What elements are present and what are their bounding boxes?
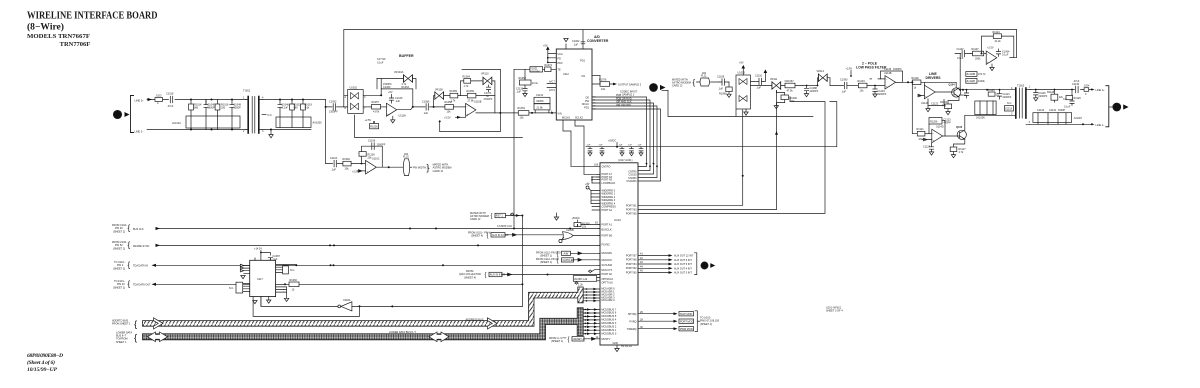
svg-text:1.2k: 1.2k	[578, 284, 583, 287]
wire PORT B1 loop	[638, 110, 743, 205]
Q103 collector to T1003	[965, 115, 1015, 130]
svg-text:LOOPBACK: LOOPBACK	[602, 182, 616, 185]
capacitor C1088	[804, 85, 818, 97]
modem jumper cluster	[470, 212, 489, 221]
svg-text:.1uF: .1uF	[756, 87, 761, 90]
svg-text:R1026: R1026	[370, 125, 378, 128]
svg-text:LINE 2−: LINE 2−	[135, 131, 145, 134]
capacitor C1145	[618, 145, 624, 156]
svg-text:GND: GND	[613, 342, 619, 345]
bias R1052 C1133	[516, 77, 539, 97]
svg-text:C: C	[652, 85, 655, 90]
buffer feedback loop lower C1060/R1063	[381, 89, 413, 107]
svg-text:CARD J2: CARD J2	[433, 170, 444, 173]
svg-text:RESET 2: RESET 2	[574, 338, 585, 341]
svg-text:3.6864MHZ: 3.6864MHZ	[530, 71, 541, 73]
row3 label	[113, 261, 126, 270]
svg-text:JU24: JU24	[1084, 85, 1090, 88]
svg-text:JU111B: JU111B	[966, 80, 975, 83]
row4 TDA DATA OUT wire	[156, 283, 522, 285]
resistor R1054	[518, 107, 529, 119]
svg-text:MCUMIN: MCUMIN	[602, 252, 612, 255]
analog switch U1002	[345, 86, 367, 113]
svg-text:C1135: C1135	[884, 68, 892, 71]
svg-text:BUS CLK: BUS CLK	[133, 228, 144, 231]
codec line down	[668, 91, 813, 117]
PORT A7-A5 LOOPBACK stubs	[584, 174, 600, 183]
svg-text:{: {	[134, 332, 137, 343]
svg-text:VR109: VR109	[435, 89, 443, 92]
svg-text:Q103: Q103	[956, 126, 963, 129]
WIDEFREQ tie circle	[585, 183, 600, 204]
junction node main/down	[325, 106, 327, 108]
svg-text:4.7k: 4.7k	[402, 83, 407, 86]
svg-text:R1107: R1107	[972, 48, 980, 51]
svg-text:R1118: R1118	[912, 77, 920, 80]
svg-text:PORT B0: PORT B0	[626, 271, 637, 274]
U114C feedback	[928, 99, 944, 106]
+2.5V tap	[846, 68, 853, 77]
svg-text:.1uF: .1uF	[331, 169, 336, 172]
svg-text:H1,N1,R1: H1,N1,R1	[621, 345, 633, 348]
wire U110B out	[476, 112, 556, 114]
svg-text:PORT B6: PORT B6	[626, 259, 637, 262]
svg-text:PD1: PD1	[580, 60, 585, 63]
svg-text:5600P: 5600P	[208, 107, 216, 110]
svg-text:SAMPLE 2: SAMPLE 2	[622, 94, 635, 97]
svg-text:(SHEET 2): (SHEET 2)	[113, 286, 125, 289]
svg-text:COMPRESS: COMPRESS	[602, 205, 617, 208]
svg-text:400: 400	[404, 153, 409, 156]
svg-text:200k: 200k	[975, 58, 981, 61]
svg-text:PD: PD	[558, 58, 562, 61]
svg-text:C1124: C1124	[923, 146, 931, 149]
svg-text:CNTRO: CNTRO	[602, 166, 611, 169]
svg-text:{: {	[128, 260, 131, 269]
off-sheet label modem J2	[672, 79, 691, 88]
box PWM MOD	[679, 327, 694, 331]
svg-text:400: 400	[702, 72, 707, 75]
divider JU111B	[959, 70, 985, 91]
svg-text:JU1006: JU1006	[976, 117, 985, 120]
svg-text:T1003: T1003	[1017, 85, 1025, 88]
junction dots secondary	[270, 99, 304, 131]
svg-text:MCSTV: MCSTV	[602, 338, 611, 341]
switch out to buffer fb node	[363, 79, 381, 96]
wire U1002 out	[363, 106, 371, 108]
svg-text:VR112: VR112	[817, 70, 825, 73]
svg-text:MCUDBUS 1: MCUDBUS 1	[602, 329, 617, 332]
wire to U114C	[921, 82, 956, 88]
aux in 12 row	[468, 231, 491, 237]
svg-text:R1133: R1133	[858, 80, 866, 83]
capacitor C1146	[628, 145, 634, 156]
svg-text:.1uF: .1uF	[516, 91, 521, 94]
svg-text:27.8k: 27.8k	[468, 100, 475, 103]
resistor R1065	[467, 90, 476, 103]
svg-text:TRN7706F: TRN7706F	[60, 41, 91, 48]
CNTRO top left pin	[571, 165, 600, 167]
address bus left arrow marker	[154, 318, 164, 329]
transformer T1002	[243, 90, 264, 134]
svg-text:1000PF: 1000PF	[377, 144, 386, 147]
svg-text:U117: U117	[257, 278, 263, 281]
wire PDB OR RXD	[592, 100, 650, 171]
svg-text:.1uF: .1uF	[718, 88, 723, 91]
svg-text:DRIVERS: DRIVERS	[926, 76, 942, 80]
row1 BUS CLK wire	[156, 228, 600, 230]
capacitor C1134	[873, 85, 887, 98]
svg-text:(SHEET 2): (SHEET 2)	[113, 267, 125, 270]
svg-text:+5VDC: +5VDC	[608, 140, 616, 143]
inverter U118A	[338, 299, 352, 311]
svg-text:TIMERQ: TIMERQ	[627, 328, 637, 331]
svg-text:FSYNC: FSYNC	[602, 244, 611, 247]
svg-text:R1128: R1128	[1047, 91, 1055, 94]
wire U110A out	[397, 107, 445, 110]
clock source circle	[559, 239, 562, 242]
wire switch to VR111	[751, 85, 772, 87]
svg-text:C1131: C1131	[1049, 109, 1057, 112]
svg-text:(SHEET 4): (SHEET 4)	[464, 276, 476, 279]
svg-text:TDA DATA OUT: TDA DATA OUT	[133, 284, 151, 287]
svg-text:1500PF: 1500PF	[893, 68, 902, 71]
U113 right pin labels	[626, 170, 637, 331]
svg-text:(Sheet 4 of 6): (Sheet 4 of 6)	[27, 359, 55, 366]
svg-text:+2.5V: +2.5V	[444, 116, 451, 119]
svg-text:R1126: R1126	[988, 89, 996, 92]
svg-text:PORT B7: PORT B7	[626, 254, 637, 257]
U113 ground	[613, 342, 633, 352]
svg-text:4700PF: 4700PF	[484, 98, 493, 101]
svg-text:TDA DATA IN: TDA DATA IN	[133, 265, 148, 268]
svg-text:MODELS TRN7667F: MODELS TRN7667F	[27, 33, 90, 40]
resistor R1129	[1066, 96, 1081, 101]
svg-text:R1064: R1064	[463, 76, 471, 79]
svg-text:M1: M1	[582, 75, 586, 78]
address bus band	[143, 287, 584, 326]
long bias line	[354, 115, 522, 137]
junction dot U110B in	[433, 106, 435, 108]
svg-text:R1065: R1065	[467, 90, 475, 93]
resistor R1082	[774, 91, 797, 109]
port A tie vertical	[588, 177, 592, 183]
svg-text:10/15/99−UP: 10/15/99−UP	[27, 367, 58, 373]
U114B fb loop	[881, 71, 903, 82]
resistor R1014	[189, 100, 202, 117]
filter FL11	[697, 72, 720, 86]
main line to T1003	[959, 89, 1014, 91]
svg-text:47.5k: 47.5k	[787, 90, 794, 93]
svg-text:VR111: VR111	[770, 78, 778, 81]
svg-text:{: {	[485, 273, 487, 279]
resistor R1126	[986, 89, 999, 97]
svg-text:MCLK1: MCLK1	[562, 117, 571, 120]
lower data bus band	[143, 308, 584, 340]
resistor R1128	[1047, 89, 1064, 103]
svg-text:C1106: C1106	[368, 140, 376, 143]
svg-text:A/W: A/W	[564, 253, 569, 256]
row2 label	[112, 241, 128, 250]
divider JU110B	[960, 54, 986, 77]
svg-text:(U117,AU41): (U117,AU41)	[618, 159, 633, 162]
U117 top pin stubs	[255, 258, 270, 261]
resistor R1067	[781, 80, 803, 93]
svg-text:5.6k: 5.6k	[305, 107, 310, 110]
svg-text:C1131: C1131	[536, 94, 544, 97]
node marker aux	[701, 262, 715, 269]
rail drop to buffer	[344, 30, 348, 107]
A/C pins	[547, 80, 556, 92]
capacitor C1104	[330, 157, 338, 172]
ground T1002 secondary	[269, 130, 273, 138]
svg-text:VCA: VCA	[558, 53, 563, 56]
wire U110C out	[376, 166, 403, 168]
svg-text:PORT A0: PORT A0	[602, 273, 613, 276]
wire IDR OR MXD	[592, 106, 657, 178]
svg-text:{: {	[491, 214, 493, 220]
svg-text:RST 1: RST 1	[496, 215, 504, 218]
outer fb loop via +2.5 bias	[440, 69, 501, 131]
svg-text:U110A: U110A	[399, 115, 407, 118]
svg-text:+2.5V: +2.5V	[846, 68, 853, 71]
svg-text:PORT B2: PORT B2	[626, 267, 637, 270]
op-amp U114C	[921, 85, 935, 105]
svg-text:PORT B1: PORT B1	[626, 204, 637, 207]
+5VDC pullup R1269	[572, 217, 601, 229]
capacitor C1110	[751, 69, 768, 89]
svg-text:+2.5V: +2.5V	[365, 119, 372, 122]
svg-text:C1052: C1052	[329, 101, 337, 104]
wire down to U110C	[325, 107, 327, 164]
label A/D CONVERTER	[587, 35, 609, 43]
svg-text:CR1067: CR1067	[785, 80, 795, 83]
svg-text:SCLK2: SCLK2	[575, 117, 584, 120]
svg-text:{: {	[557, 258, 559, 264]
capacitor C1124	[923, 143, 934, 155]
svg-text:R1062: R1062	[343, 158, 351, 161]
capacitor C1143	[586, 145, 592, 156]
svg-text:SCIP MOD: SCIP MOD	[680, 313, 693, 316]
svg-text:JU1007: JU1007	[1074, 117, 1083, 120]
label 2-pole LPF	[856, 62, 887, 70]
+5VDC caps rail	[586, 146, 641, 148]
+2.5V ref VR1026	[365, 119, 379, 129]
svg-text:{: {	[134, 319, 137, 330]
+2.5V into U110C	[352, 170, 366, 174]
off sheet note right	[826, 307, 843, 313]
filter FL10	[403, 153, 412, 176]
svg-text:330: 330	[221, 107, 226, 110]
svg-text:U1003: U1003	[738, 72, 746, 75]
diode pair VR109	[435, 89, 444, 100]
svg-text:C1110: C1110	[755, 75, 763, 78]
svg-text:C1060: C1060	[383, 86, 391, 89]
svg-text:VIN: VIN	[558, 113, 562, 116]
aux out wires	[638, 253, 697, 275]
svg-text:+5VDC: +5VDC	[572, 217, 580, 220]
wire PD2	[592, 109, 661, 181]
svg-text:680: 680	[294, 107, 299, 110]
analog switch U1003	[736, 62, 751, 116]
svg-text:.1uF: .1uF	[841, 91, 846, 94]
svg-text:LINE 1+: LINE 1+	[1096, 89, 1106, 92]
node J2 marker	[113, 110, 129, 118]
U117 right pins	[276, 265, 297, 274]
svg-text:C1108: C1108	[717, 76, 725, 79]
svg-text:.1uF: .1uF	[423, 112, 428, 115]
svg-text:CSCM00: CSCM00	[626, 180, 637, 183]
center tap N.C.	[262, 114, 273, 117]
svg-text:CARD J2: CARD J2	[470, 218, 481, 221]
svg-text:PD2: PD2	[584, 106, 589, 109]
capacitor C1048	[278, 100, 290, 117]
resistor R1057	[372, 101, 381, 114]
top rail ties opamp output	[1010, 30, 1016, 58]
svg-text:WIRELINE INTERFACE BOARD: WIRELINE INTERFACE BOARD	[27, 10, 158, 21]
svg-text:OPTTXLK: OPTTXLK	[602, 281, 614, 284]
svg-text:MCUCTX: MCUCTX	[602, 269, 613, 272]
jumper block JU1007	[1033, 109, 1083, 125]
fb loop R1124	[981, 31, 1014, 58]
LINE 2 bracket	[131, 96, 134, 133]
interrupt outputs	[638, 311, 720, 332]
transistor Q104	[935, 84, 961, 98]
capacitor C1129	[1063, 89, 1074, 109]
lower driver fb box R1206	[929, 118, 951, 125]
svg-text:C1111: C1111	[959, 94, 966, 97]
op-amp U114A	[986, 51, 997, 64]
IC U113 body	[600, 163, 638, 345]
buffer feedback diode pair VR104	[377, 58, 416, 89]
svg-text:106: 106	[594, 163, 599, 166]
svg-text:C1090: C1090	[840, 79, 848, 82]
svg-text:AUX OUT 5 INT: AUX OUT 5 INT	[674, 263, 692, 266]
svg-text:(SHEET 2): (SHEET 2)	[113, 230, 125, 233]
svg-text:FRAME SYNC: FRAME SYNC	[133, 245, 150, 248]
U117 left lower pins to box	[229, 282, 250, 293]
IC U112 body	[556, 49, 592, 120]
label LINE DRIVERS	[926, 72, 942, 80]
row2 FRAME SYNC wire	[156, 244, 600, 246]
svg-text:R1060: R1060	[290, 279, 298, 282]
svg-text:MCUADR 4: MCUADR 4	[602, 299, 616, 302]
jumper JU24	[1084, 85, 1090, 96]
svg-text:(8−Wire): (8−Wire)	[27, 21, 64, 32]
svg-text:(SHEET 1): (SHEET 1)	[540, 261, 552, 264]
svg-text:JU110B: JU110B	[966, 73, 975, 76]
wire LINE2- bottom	[147, 129, 246, 131]
svg-text:FL10: FL10	[403, 156, 409, 159]
svg-text:U112: U112	[563, 73, 569, 76]
svg-text:PWM MOD: PWM MOD	[680, 328, 693, 331]
capacitor C1108	[717, 76, 729, 91]
svg-text:PORT B3: PORT B3	[626, 209, 637, 212]
svg-text:LOWER DATA BUS 8−T: LOWER DATA BUS 8−T	[389, 331, 416, 334]
resistor R1059	[450, 90, 458, 103]
extra junction dots rows	[409, 228, 571, 247]
resistor R1064	[463, 76, 471, 89]
op-amp U110A	[386, 103, 406, 117]
wire PDB	[592, 97, 647, 167]
svg-text:CARD J2: CARD J2	[672, 85, 683, 88]
svg-text:FROM SHEET 1: FROM SHEET 1	[112, 323, 131, 326]
address bus arrow marker	[487, 318, 489, 321]
U110B fb rail: VR109 R1059 R1065	[434, 96, 495, 113]
jumper JU23	[155, 95, 163, 105]
svg-text:C1107: C1107	[957, 48, 965, 51]
decoupling caps row C1143-C1147	[586, 145, 643, 156]
svg-text:1.7k: 1.7k	[451, 100, 456, 103]
svg-text:(SHEET 4): (SHEET 4)	[471, 235, 483, 238]
svg-text:U114C: U114C	[921, 102, 929, 105]
junction dots primary	[190, 99, 233, 131]
MCUCTX jog	[589, 270, 601, 273]
transistor Q103	[943, 126, 967, 140]
svg-text:.1uF: .1uF	[628, 145, 633, 147]
capacitor C1066 series	[422, 101, 430, 115]
top decoupling C1062	[564, 30, 585, 49]
svg-text:(SHEET 2): (SHEET 2)	[113, 247, 125, 250]
svg-text:BUSCLK: BUSCLK	[602, 229, 612, 232]
wire into U110C	[326, 163, 366, 165]
long vertical tie	[521, 216, 523, 307]
svg-text:R1054: R1054	[518, 107, 526, 110]
svg-text:BUFFER: BUFFER	[399, 54, 414, 58]
svg-text:.1uF: .1uF	[395, 100, 400, 103]
resistor R1133	[858, 80, 886, 93]
op-amp U114B	[884, 72, 896, 89]
svg-text:21.8k: 21.8k	[537, 107, 544, 110]
svg-text:LINE 1−: LINE 1−	[1096, 124, 1106, 127]
OR gate U120B	[559, 229, 600, 243]
svg-text:PVRQ: PVRQ	[629, 320, 636, 323]
svg-text:{: {	[693, 78, 696, 87]
svg-text:PORT A2: PORT A2	[602, 209, 613, 212]
svg-text:R1068 1.2k: R1068 1.2k	[574, 278, 588, 281]
upper loop R1064 VR110	[460, 81, 495, 96]
resistor R1121	[917, 128, 925, 141]
output sample R1076	[592, 76, 642, 92]
A/W row	[536, 251, 561, 257]
svg-text:{: {	[568, 337, 570, 343]
capacitor C1049	[230, 100, 242, 116]
svg-text:1500PF: 1500PF	[383, 83, 392, 86]
svg-text:R1129: R1129	[1074, 97, 1082, 100]
svg-text:.47uF: .47uF	[1073, 80, 1080, 83]
svg-text:ADDRESS BUS: ADDRESS BUS	[466, 318, 484, 321]
opamp out junctions	[380, 94, 414, 108]
+14.3V supply	[254, 247, 280, 260]
svg-text:2200PF: 2200PF	[1039, 95, 1048, 98]
svg-text:(SHEET 1): (SHEET 1)	[551, 340, 563, 343]
svg-text:1500PF: 1500PF	[329, 111, 338, 114]
svg-text:+14.3V: +14.3V	[254, 247, 262, 250]
3.6MHz clock drop	[514, 69, 525, 228]
net PW WIDTH 2	[413, 163, 451, 173]
capacitor C1071	[484, 85, 493, 101]
svg-text:JU23: JU23	[156, 95, 162, 98]
fb wires U114D	[929, 121, 945, 136]
lower data bus label left	[116, 331, 132, 344]
svg-text:R1121: R1121	[917, 128, 925, 131]
capacitor C1144	[598, 145, 604, 156]
svg-text:U114D: U114D	[936, 126, 944, 129]
+2.5V into U114D	[922, 138, 932, 141]
reset row	[549, 337, 567, 343]
U113 left pin labels	[602, 166, 617, 342]
svg-text:N.C.: N.C.	[268, 114, 273, 117]
